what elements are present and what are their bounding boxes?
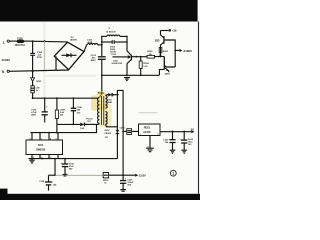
svg-text:FR104: FR104 — [105, 132, 112, 135]
svg-text:1: 1 — [140, 134, 141, 136]
svg-text:3DD1: 3DD1 — [165, 73, 171, 75]
node Q2 base drive — [159, 56, 161, 58]
capacitor C103 4.7uF 450V — [31, 98, 48, 122]
PC101 label — [86, 118, 93, 123]
wire N to bridge left vertex — [55, 56, 57, 70]
right page border line — [198, 22, 200, 194]
node drain rail 3 — [56, 132, 58, 134]
node 180V tap — [174, 50, 176, 52]
svg-text:450V: 450V — [31, 114, 36, 117]
IC pin stubs top — [32, 133, 58, 140]
left secondary vertical upper — [116, 95, 118, 130]
capacitor C203 104 — [163, 131, 175, 153]
node barrel/rail — [32, 97, 34, 99]
Q1 base wire to right rail — [164, 40, 175, 67]
svg-text:3: 3 — [157, 134, 158, 136]
capacitor C201 100uF 25V — [120, 175, 134, 191]
svg-text:7: 7 — [41, 138, 42, 140]
svg-text:400V: 400V — [91, 59, 97, 62]
svg-text:DM0265: DM0265 — [36, 149, 46, 152]
node C108 — [73, 97, 75, 99]
bottom return rail y75.3 — [102, 74, 160, 76]
svg-text:3W: 3W — [149, 54, 152, 56]
wire N line — [9, 70, 68, 71]
capacitor C100 leg — [30, 41, 43, 71]
node on L line 2 — [44, 40, 46, 42]
svg-text:AC105: AC105 — [143, 131, 151, 134]
wire L line — [26, 40, 68, 43]
left secondary vertical lower — [116, 134, 118, 159]
switching transistor V1 drive arrow — [111, 51, 131, 65]
node rail/feed — [101, 44, 103, 46]
svg-text:275V: 275V — [37, 57, 43, 59]
svg-text:47u: 47u — [92, 56, 96, 59]
transistor Q2 bottom pass (no circle) — [164, 57, 175, 76]
secondary bus bridge (inverted U) — [117, 90, 123, 131]
svg-text:1C0Z: 1C0Z — [111, 54, 117, 56]
node drain rail 1 — [39, 132, 41, 134]
resistor R104 vertical — [139, 57, 149, 76]
transistor Q1 top pass (mirrored, no circle) — [155, 31, 164, 57]
svg-text:2W: 2W — [60, 115, 63, 117]
right rail x127 lower — [126, 64, 128, 76]
node gnd rail p3 — [54, 158, 56, 160]
svg-text:13.8V: 13.8V — [139, 174, 146, 178]
wire return rail up to Q2 — [159, 69, 164, 75]
capacitor C105 47uF — [61, 159, 75, 176]
wire bridge out diagonal — [84, 45, 87, 52]
inductor L100 — [87, 40, 98, 45]
svg-text:F100: F100 — [17, 37, 23, 40]
svg-text:25V: 25V — [127, 185, 131, 187]
+B top line with square pad — [161, 29, 177, 33]
snubber loop mid path with capacitor — [102, 40, 127, 44]
node base drive — [140, 56, 142, 58]
IC pin numbers top — [30, 138, 57, 140]
IC pin numbers bottom — [33, 157, 51, 159]
5V output line — [160, 128, 195, 134]
svg-text:5V: 5V — [191, 128, 194, 132]
faint wire x44.5 — [44, 41, 46, 70]
svg-text:2kV: 2kV — [77, 112, 81, 114]
svg-text:SCEW D02: SCEW D02 — [111, 63, 122, 65]
svg-text:250V/T1A: 250V/T1A — [15, 44, 26, 47]
wire node to Q2 base — [160, 56, 164, 58]
svg-text:45V: 45V — [69, 168, 73, 171]
transformer secondary top winding — [106, 95, 108, 108]
transformer primary winding — [98, 98, 100, 124]
gray scan line mid-right — [138, 112, 157, 114]
node on N line — [32, 70, 34, 72]
capacitor C108 682 — [71, 98, 83, 124]
svg-text:4.7uF: 4.7uF — [31, 111, 37, 114]
svg-text:IC04: IC04 — [38, 144, 44, 147]
wire inductor to rail — [98, 44, 102, 46]
svg-text:6: 6 — [50, 138, 51, 140]
node C103 — [44, 97, 46, 99]
svg-text:6Z01: 6Z01 — [36, 81, 42, 83]
svg-text:5: 5 — [56, 138, 57, 140]
circled figure mark — [170, 170, 176, 176]
yellow highlight transformer lower — [99, 104, 112, 127]
ground symbol under return rail — [124, 78, 130, 81]
svg-text:1: 1 — [172, 172, 174, 176]
wire R105 to Q2 base — [155, 56, 161, 58]
svg-text:T1C1: T1C1 — [98, 92, 105, 95]
svg-text:400R: 400R — [88, 41, 93, 44]
IC101 DM0265R — [26, 140, 63, 155]
right rail x127 upper — [126, 36, 128, 50]
wire snubber to primary bottom — [98, 123, 101, 126]
bridge rectifier BD1 — [54, 37, 84, 70]
svg-text:C110: C110 — [39, 181, 45, 183]
regulator REG1 — [139, 124, 160, 136]
node gnd rail c105 — [64, 158, 66, 160]
wire L to fuse — [9, 40, 16, 42]
svg-text:4D008: 4D008 — [70, 38, 77, 41]
snubber loop nodes — [101, 36, 103, 38]
wire R108 column to drain rail — [56, 124, 58, 132]
diode D105 — [80, 123, 98, 127]
wire transistor to R105 — [132, 56, 147, 58]
svg-text:1N48: 1N48 — [107, 101, 113, 104]
capacitor C204 100uF 16V — [180, 131, 194, 153]
svg-text:REG1: REG1 — [144, 127, 151, 130]
node cap C203 — [172, 131, 174, 133]
ground symbol pin1 — [29, 159, 35, 164]
ground symbol REG1 — [146, 135, 154, 151]
node R104 on return rail — [140, 74, 142, 76]
svg-text:C202: C202 — [120, 127, 126, 129]
capacitor C102 plates — [91, 55, 106, 62]
fusible resistor MF10 — [103, 173, 109, 185]
resistor R201 on emitter line — [159, 48, 169, 53]
transformer T101 core — [101, 96, 103, 125]
Q1 emitter arrow onto node — [159, 54, 161, 57]
resistor R108 5.6k — [55, 98, 65, 124]
left HV rail lower — [99, 59, 101, 97]
svg-text:R104: R104 — [143, 62, 149, 65]
output arrow 180V — [175, 49, 192, 53]
svg-text:+1B: +1B — [172, 30, 177, 33]
left HV rail x101.8 — [101, 36, 103, 56]
yellow highlight transformer — [91, 96, 106, 111]
diode D202 FR104 — [105, 130, 120, 135]
13.8V output line — [55, 174, 146, 178]
IC pin stubs bottom — [32, 155, 58, 159]
wire rail drop to C110 — [54, 159, 56, 176]
svg-text:3DD: 3DD — [155, 40, 160, 42]
node drive 1 — [136, 56, 138, 58]
wire to C202 box — [123, 130, 127, 132]
svg-text:16V: 16V — [188, 144, 192, 146]
node on L line — [32, 40, 34, 42]
node R108 — [56, 97, 58, 99]
spark gap 6Z01 — [31, 71, 42, 83]
capacitor C110 104 — [39, 174, 57, 190]
svg-text:47uF: 47uF — [69, 165, 75, 168]
svg-text:C204: C204 — [188, 138, 194, 141]
node rail/bottom-rail — [101, 74, 103, 76]
bottom-left black nub — [0, 189, 8, 195]
capacitor C202 box — [120, 127, 132, 134]
node gnd rail p2 — [41, 158, 43, 160]
node C108 bottom — [73, 124, 75, 126]
node zener col on return rail — [126, 74, 128, 76]
resistor R105 — [147, 51, 155, 58]
wire right vertical to 13.8 node — [122, 131, 124, 175]
snubber text block — [110, 46, 117, 56]
snubber bottom line y124.4 — [57, 123, 80, 125]
transformer secondary bottom winding — [106, 112, 118, 127]
gray scan streak horizontal — [46, 75, 96, 77]
yellow highlight label — [97, 91, 107, 96]
wire C202 to REG1 — [132, 130, 139, 132]
terminal L — [3, 40, 10, 45]
node reg input branch — [122, 131, 124, 133]
svg-text:R201: R201 — [163, 51, 169, 53]
svg-text:Δ180V: Δ180V — [183, 49, 192, 53]
drain rail to transformer (IC top rail) — [30, 124, 98, 132]
snubber loop top path with inductor L — [102, 26, 127, 36]
svg-text:10 470uH: 10 470uH — [106, 31, 116, 34]
node 13.8V branch — [122, 174, 124, 176]
node drain rail 2 — [48, 132, 50, 134]
bottom black band — [0, 194, 200, 200]
gray scan fold vertical — [43, 22, 45, 100]
paper background — [0, 0, 200, 200]
terminal N — [2, 70, 9, 74]
svg-text:L: L — [3, 41, 5, 45]
diode D201 — [107, 93, 119, 104]
capacitor C106 barrel — [31, 82, 40, 99]
svg-text:8: 8 — [30, 138, 31, 140]
svg-text:AC90V: AC90V — [1, 58, 10, 62]
secondary ground rail y158.6 — [29, 158, 118, 160]
node cap C204 — [183, 131, 185, 133]
primary side rail y98.2 — [33, 97, 98, 99]
fuse F100 — [15, 37, 26, 47]
top black band — [0, 0, 198, 22]
